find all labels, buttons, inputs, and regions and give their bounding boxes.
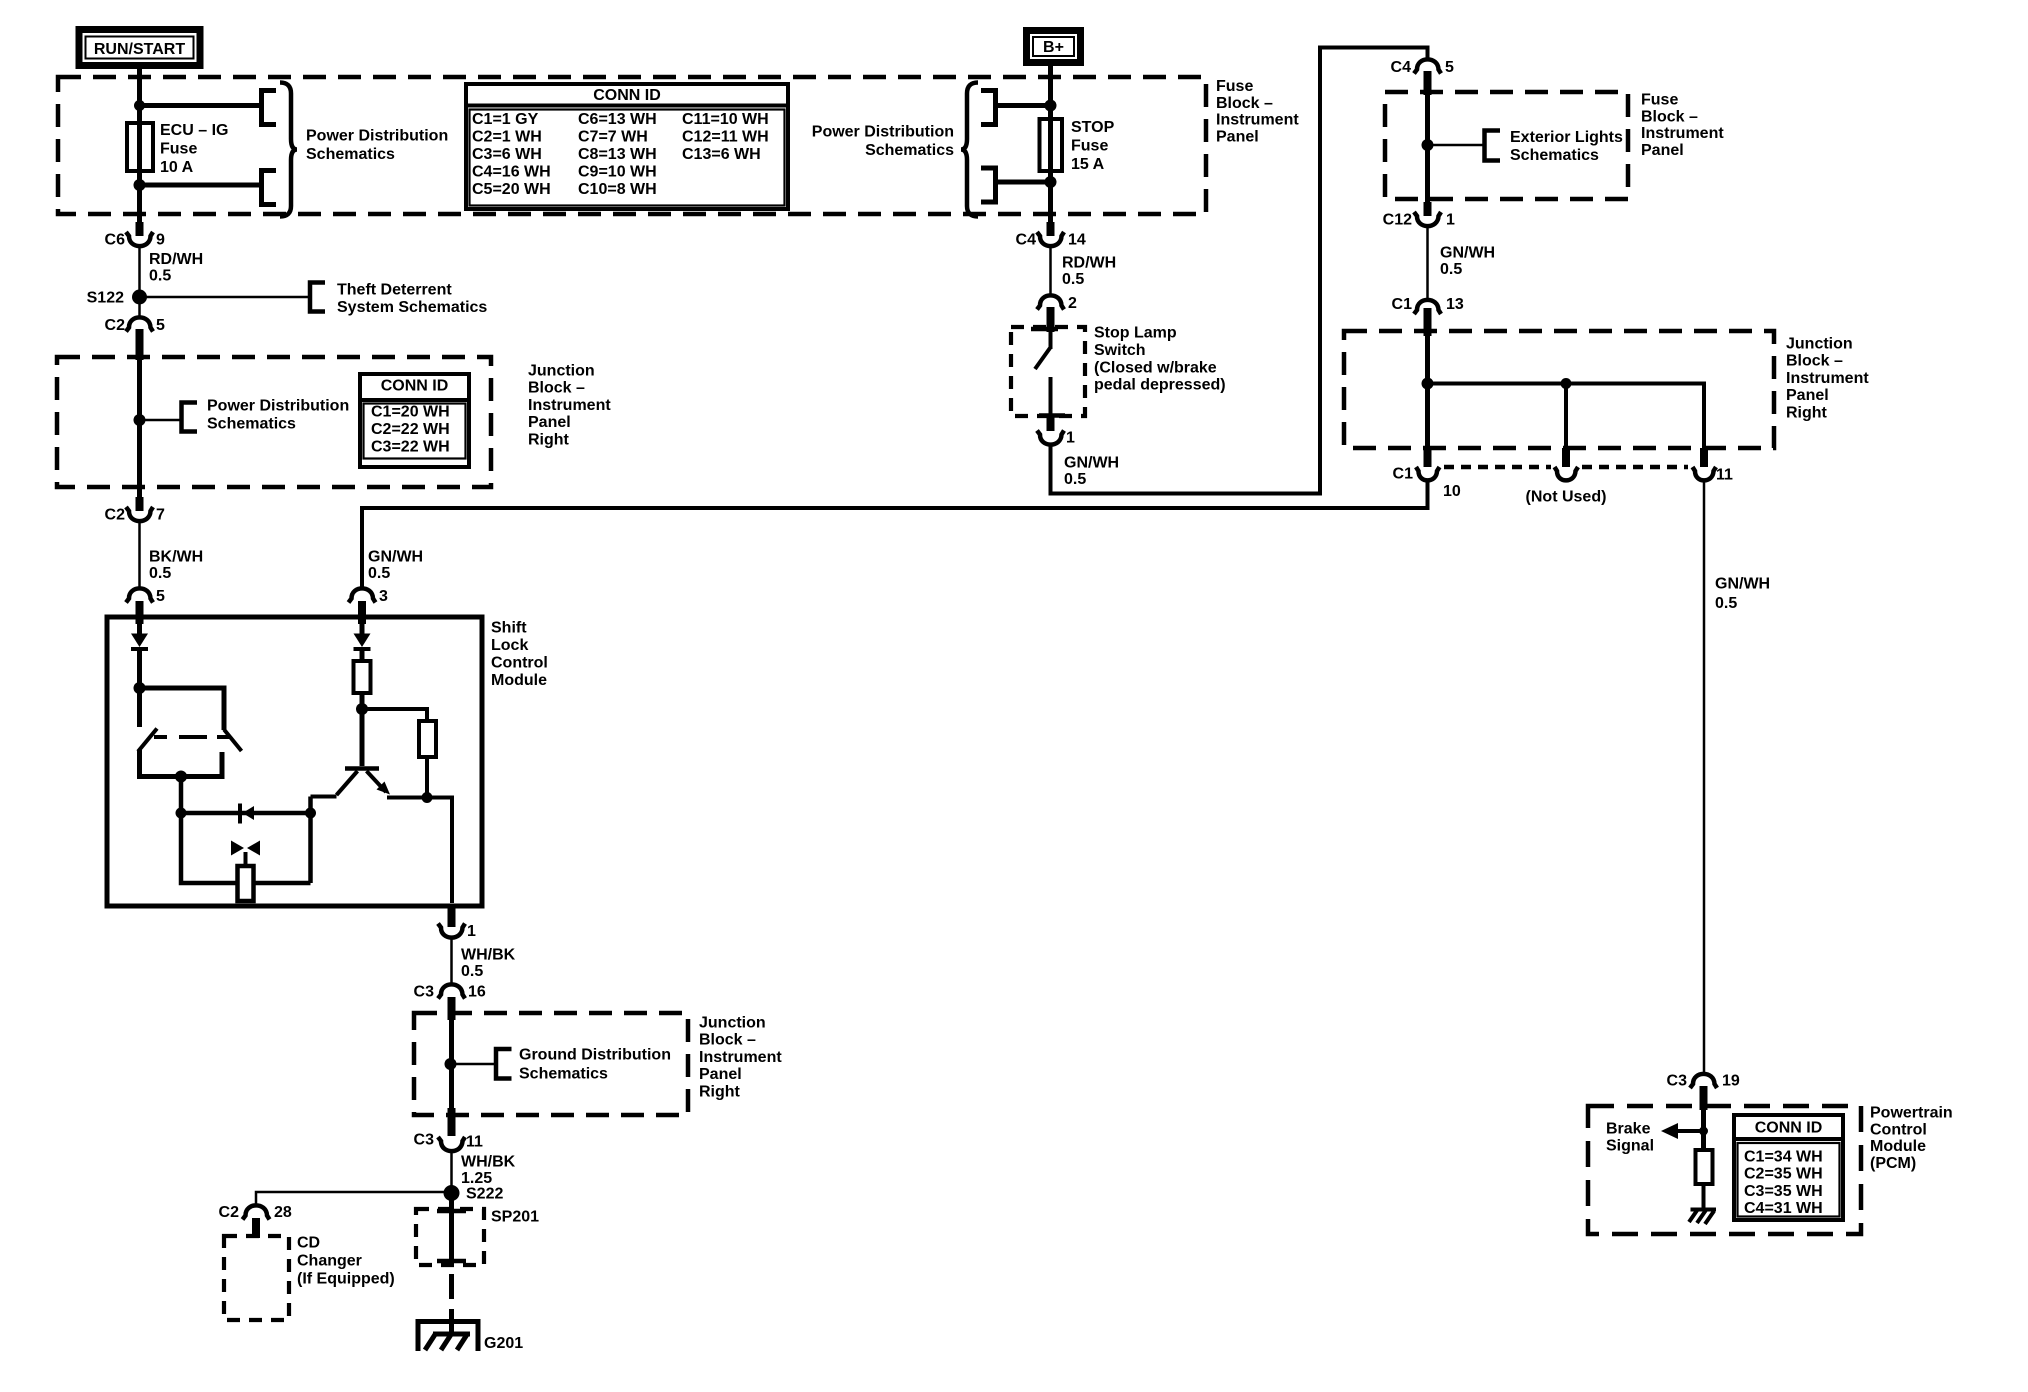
switch blade (1035, 348, 1050, 369)
bracket terminal lower STOP (981, 168, 996, 202)
svg-text:RUN/START: RUN/START (94, 41, 185, 58)
svg-text:CONN ID: CONN ID (381, 378, 449, 395)
splice S222 (444, 1185, 504, 1203)
wire C3-11 to S222 (450, 1150, 453, 1193)
connector pin 3 (349, 588, 389, 624)
connector pin 1 (stop lamp) (1037, 430, 1075, 447)
switch blade right (224, 730, 242, 752)
resistor R3 (238, 866, 254, 901)
wire to exterior lights bracket (1428, 144, 1485, 147)
svg-text:C3: C3 (414, 984, 435, 1001)
connector C1 pin 13 (1392, 296, 1464, 336)
svg-text:2: 2 (1068, 295, 1077, 312)
brace left STOP (961, 83, 978, 217)
brake signal arrow (1606, 1121, 1704, 1155)
connector C12 pin 1 (1383, 202, 1455, 229)
svg-text:C1=20 WHC2=22 WHC3=22 WH: C1=20 WHC2=22 WHC3=22 WH (371, 404, 450, 456)
junction dot (134, 100, 145, 111)
wire branch upper STOP (997, 103, 1051, 108)
connector pin 11 (1693, 448, 1734, 484)
connector C4 pin 14 (1016, 222, 1086, 249)
wire stop lamp to riser to C4-5 (1051, 48, 1428, 494)
svg-text:5: 5 (156, 317, 165, 334)
svg-text:C2: C2 (105, 317, 126, 334)
connector C2 pin 5 (105, 317, 165, 360)
connector C3 pin 19 (1667, 1073, 1740, 1111)
svg-text:S122: S122 (87, 290, 124, 307)
junction dot (1561, 378, 1572, 389)
brace right (280, 83, 297, 217)
svg-text:C2: C2 (219, 1204, 240, 1221)
junction dot (1045, 176, 1057, 188)
svg-text:C4: C4 (1016, 232, 1037, 249)
svg-text:G201: G201 (484, 1335, 523, 1352)
connector pin 5 shift lock (126, 588, 165, 624)
svg-text:1: 1 (467, 923, 476, 940)
wire D3 to R1 (360, 649, 365, 661)
junction dot (356, 703, 368, 715)
wire R1 to transistor (360, 693, 365, 766)
connector pin 2 (1037, 295, 1077, 332)
splice pack SP201 (416, 1209, 539, 1266)
diode D3 (354, 634, 371, 650)
junction dot (1045, 100, 1057, 112)
PCM dashed box (1588, 1106, 1861, 1234)
fuse ECU-IG 10A (127, 123, 153, 171)
svg-text:11: 11 (466, 1134, 483, 1151)
wire S222 to CD changer (256, 1192, 452, 1206)
connector C4 pin 5 (1391, 59, 1454, 95)
wire transistor left to loop (311, 795, 337, 799)
svg-text:14: 14 (1068, 232, 1086, 249)
wire R4 to ground (1702, 1184, 1706, 1210)
connector C6 pin 9 (105, 222, 165, 249)
svg-text:5: 5 (156, 588, 165, 605)
switch bottom contact (1049, 377, 1053, 414)
wire loop right (254, 797, 311, 884)
svg-text:C3: C3 (414, 1132, 435, 1149)
wire C1-10 to shift lock (362, 482, 1428, 589)
wire module top left (137, 620, 142, 634)
diode D1 (131, 634, 148, 650)
junction dot (134, 682, 146, 694)
svg-text:9: 9 (156, 232, 165, 249)
wire C12 to C1-13 (1426, 225, 1429, 300)
svg-text:C6=13 WHC7=7 WHC8=13 WHC9=10 W: C6=13 WHC7=7 WHC8=13 WHC9=10 WHC10=8 WH (578, 111, 657, 198)
power feed box RUN/START (79, 30, 200, 66)
bracket power distribution (182, 403, 198, 432)
wire loop left (181, 813, 238, 883)
connector C1 pin 10 (1393, 448, 1461, 500)
svg-text:BrakeSignal: BrakeSignal (1606, 1121, 1654, 1155)
stop lamp switch dashed box (1011, 327, 1085, 416)
wire module top right (360, 620, 365, 634)
switch blade left (138, 729, 157, 752)
connector not used (1526, 448, 1607, 506)
junction dot (175, 771, 187, 783)
svg-text:11: 11 (1716, 467, 1733, 484)
zener bowtie D4 (231, 841, 260, 869)
transistor Q1 (337, 769, 391, 796)
junction dot (176, 808, 187, 819)
wire diode D2 line (181, 811, 311, 816)
dashed wire SP201 to G201 (449, 1274, 454, 1336)
connector C3 pin 11 (414, 1108, 483, 1151)
wire C2-7 to pin5 (138, 520, 141, 589)
bracket terminal lower (262, 171, 277, 205)
ground PCM internal (1689, 1209, 1716, 1224)
connector C2 pin 7 (105, 497, 165, 524)
wire S222 to SP201 (449, 1198, 454, 1265)
svg-text:SP201: SP201 (491, 1209, 539, 1226)
svg-text:10: 10 (1443, 483, 1461, 500)
junction dot (1422, 378, 1434, 390)
shift lock control module box (107, 617, 482, 906)
wire RUN/START to fuse (137, 69, 142, 232)
junction dot (134, 414, 146, 426)
splice S122 (87, 290, 147, 307)
CONN ID table 1 (464, 84, 790, 209)
junction dot (445, 1058, 457, 1070)
wire C6 to S122 (138, 245, 141, 318)
wire pin1 to C3-16 (450, 937, 453, 985)
switch lower contacts (140, 750, 223, 777)
svg-text:S222: S222 (466, 1186, 503, 1203)
wire switch to diode line (179, 777, 184, 814)
junction dot (1422, 139, 1434, 151)
svg-text:C11=10 WHC12=11 WHC13=6 WH: C11=10 WHC12=11 WHC13=6 WH (682, 111, 769, 163)
connector pin 1 module output (438, 906, 476, 940)
svg-text:C1: C1 (1393, 466, 1414, 483)
CONN ID table 2 (358, 374, 471, 467)
svg-text:13: 13 (1446, 296, 1464, 313)
CD changer dashed box (224, 1236, 289, 1320)
wire to ground dist bracket (452, 1063, 497, 1066)
svg-text:C6: C6 (105, 232, 126, 249)
resistor R4 PCM (1696, 1150, 1713, 1184)
svg-text:C12: C12 (1383, 212, 1412, 229)
svg-text:C1: C1 (1392, 296, 1413, 313)
svg-text:C4: C4 (1391, 59, 1412, 76)
svg-text:5: 5 (1445, 59, 1454, 76)
wire branch upper left fuse (140, 103, 260, 108)
wire junction block internal (1428, 384, 1705, 449)
wire branch lower STOP (997, 180, 1051, 185)
junction block ground distribution dashed box (414, 1013, 688, 1115)
wire C4-14 to pin2 (1049, 245, 1052, 296)
bracket ground distribution (496, 1049, 512, 1079)
wire to power distribution bracket (140, 419, 182, 422)
svg-text:CONN ID: CONN ID (1755, 1120, 1823, 1137)
bracket theft deterrent (310, 283, 325, 312)
wire stub not used (1564, 384, 1568, 449)
switch gang dashes (154, 735, 231, 739)
fuse block instrument panel dashed box (58, 77, 1206, 214)
wire to R2 top (362, 709, 427, 721)
wire through exterior lights box (1425, 92, 1430, 212)
wire C3-19 into PCM (1701, 1106, 1706, 1150)
svg-text:3: 3 (379, 588, 388, 605)
fuse block dashed box (exterior lights) (1385, 92, 1628, 199)
svg-text:1: 1 (1066, 430, 1075, 447)
svg-text:CONN ID: CONN ID (593, 87, 661, 104)
junction dot (305, 808, 316, 819)
power feed box B+ (1027, 31, 1081, 63)
svg-text:7: 7 (156, 507, 165, 524)
junction block IP right dashed box (upper) (57, 357, 491, 487)
wire through ground dist block (449, 1013, 454, 1115)
ground G201 (418, 1322, 523, 1353)
resistor R2 (419, 721, 436, 757)
svg-text:16: 16 (468, 984, 486, 1001)
junction dot (422, 792, 433, 803)
bracket terminal upper STOP (981, 91, 996, 125)
wire R2 bottom (425, 757, 429, 798)
bracket exterior lights (1485, 131, 1501, 161)
wire branch lower left fuse (140, 183, 260, 188)
svg-text:28: 28 (274, 1204, 292, 1221)
fuse STOP 15A (1040, 119, 1063, 171)
svg-text:B+: B+ (1043, 39, 1064, 56)
svg-text:1: 1 (1446, 212, 1455, 229)
junction dot (1699, 1127, 1708, 1136)
wire through junction block (137, 357, 142, 508)
svg-text:19: 19 (1722, 1073, 1740, 1090)
wire switch right contact (140, 688, 225, 730)
junction dot (134, 179, 146, 191)
svg-text:(Not Used): (Not Used) (1526, 489, 1607, 506)
connector C3 pin 16 (414, 984, 486, 1021)
switch top contact (1049, 332, 1053, 349)
connector C2 pin 28 (219, 1204, 292, 1238)
svg-text:C3: C3 (1667, 1073, 1688, 1090)
wire S122 to theft deterrent bracket (140, 296, 310, 299)
resistor R1 (354, 661, 371, 693)
wire B+ to STOP fuse (1048, 66, 1053, 232)
wire D1 to switch (137, 649, 142, 727)
diode D2 (240, 804, 254, 824)
bracket terminal upper (262, 91, 277, 125)
svg-text:C1=34 WHC2=35 WHC3=35 WHC4=31: C1=34 WHC2=35 WHC3=35 WHC4=31 WH (1744, 1149, 1823, 1218)
wire through junction block right (1425, 331, 1430, 455)
CONN ID table 3 (1732, 1115, 1845, 1220)
wire emitter to output (387, 798, 452, 904)
junction block IP right dashed box (right) (1344, 331, 1774, 448)
wire pin11 to PCM (1703, 482, 1706, 1074)
svg-text:C2: C2 (105, 507, 126, 524)
connector row dotted line (1444, 465, 1688, 470)
